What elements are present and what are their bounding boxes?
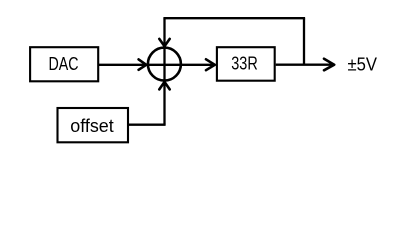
wire: feedback right vertical from output node xyxy=(303,18,305,64)
wire: 33R output to +/-5V xyxy=(276,64,333,66)
svg-text:33R: 33R xyxy=(231,54,258,74)
block 33R box xyxy=(217,47,275,80)
arrowhead at +/-5V output xyxy=(324,59,334,71)
arrowhead into summing junction top (pointing down) xyxy=(159,39,169,46)
wire: offset box to summing junction horizontal xyxy=(129,124,166,126)
svg-text:offset: offset xyxy=(70,116,114,136)
block DAC box xyxy=(30,47,98,81)
arrowhead into 33R box xyxy=(206,59,215,70)
svg-text:±5V: ±5V xyxy=(348,54,378,74)
wire: DAC output through summing junction to 33R input xyxy=(99,64,215,66)
summing junction circle xyxy=(148,48,181,81)
arrowhead into summing junction bottom (pointing up) xyxy=(159,82,169,90)
block offset box xyxy=(58,108,129,142)
wire: feedback top horizontal xyxy=(163,17,305,19)
arrowhead into summing junction left xyxy=(139,59,147,69)
wire: feedback/offset vertical through summing junction xyxy=(163,18,165,125)
svg-text:DAC: DAC xyxy=(49,54,79,74)
